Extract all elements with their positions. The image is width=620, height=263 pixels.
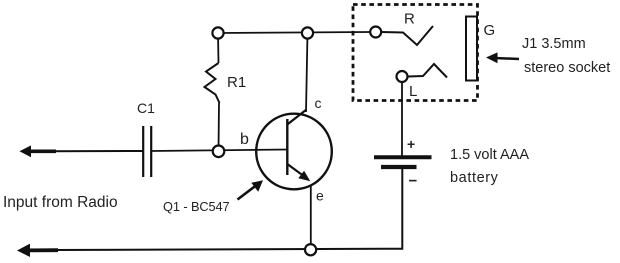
- transistor Q1 collector stroke: [287, 110, 306, 125]
- node C junction top middle: [302, 27, 313, 38]
- wire battery minus down and bottom rail to left arrow: [28, 168, 402, 250]
- wire capacitor C1 to transistor base through node B: [151, 150, 287, 152]
- wire jack L contact down to battery plus: [401, 77, 403, 157]
- battery B1 positive plate: [374, 155, 432, 159]
- svg-text:e: e: [316, 188, 324, 204]
- svg-text:1.5 volt AAA: 1.5 volt AAA: [450, 147, 529, 163]
- svg-text:+: +: [407, 136, 415, 152]
- resistor R1: [205, 63, 220, 103]
- capacitor C1: [143, 126, 151, 177]
- svg-text:battery: battery: [450, 170, 499, 186]
- svg-text:J1 3.5mm: J1 3.5mm: [522, 36, 586, 52]
- node B junction at base: [213, 146, 225, 158]
- transistor Q1 emitter stroke with arrow: [287, 164, 310, 181]
- svg-text:Q1 - BC547: Q1 - BC547: [163, 199, 230, 214]
- wire resistor R1 to node B: [218, 103, 221, 151]
- arrowhead input left: [20, 145, 32, 157]
- svg-text:c: c: [315, 95, 322, 111]
- transistor Q1 circle: [256, 114, 332, 190]
- svg-text:b: b: [240, 131, 249, 148]
- arrow pointing to jack socket: [486, 52, 519, 63]
- transistor Q1 base bar: [286, 119, 288, 175]
- svg-text:C1: C1: [137, 100, 155, 116]
- wire node A down to resistor R1: [217, 33, 220, 63]
- svg-text:Input from Radio: Input from Radio: [3, 194, 118, 211]
- svg-text:−: −: [409, 173, 418, 190]
- svg-text:G: G: [484, 22, 496, 39]
- svg-text:R: R: [404, 11, 415, 28]
- battery B1 negative plate: [381, 165, 417, 169]
- arrowhead bottom left: [17, 244, 30, 257]
- wire emitter down to node D: [310, 186, 312, 246]
- node A junction top left: [212, 27, 223, 38]
- jack G sleeve contact rectangle: [466, 17, 477, 81]
- jack R contact terminal circle: [370, 27, 381, 38]
- jack J1 dashed outline box: [353, 5, 478, 101]
- svg-text:R1: R1: [227, 74, 246, 91]
- svg-text:L: L: [409, 83, 417, 100]
- jack L contact terminal circle: [397, 71, 408, 82]
- svg-text:stereo socket: stereo socket: [524, 60, 610, 76]
- arrow from Q1 label to transistor: [238, 180, 264, 199]
- wire top rail from node A to jack R contact: [218, 32, 371, 33]
- wire node C down to transistor collector: [306, 33, 308, 112]
- jack R contact lever: [381, 26, 433, 45]
- node D junction bottom: [305, 244, 316, 255]
- wire input arrow to capacitor C1: [29, 149, 143, 153]
- jack L contact lever: [408, 64, 447, 78]
